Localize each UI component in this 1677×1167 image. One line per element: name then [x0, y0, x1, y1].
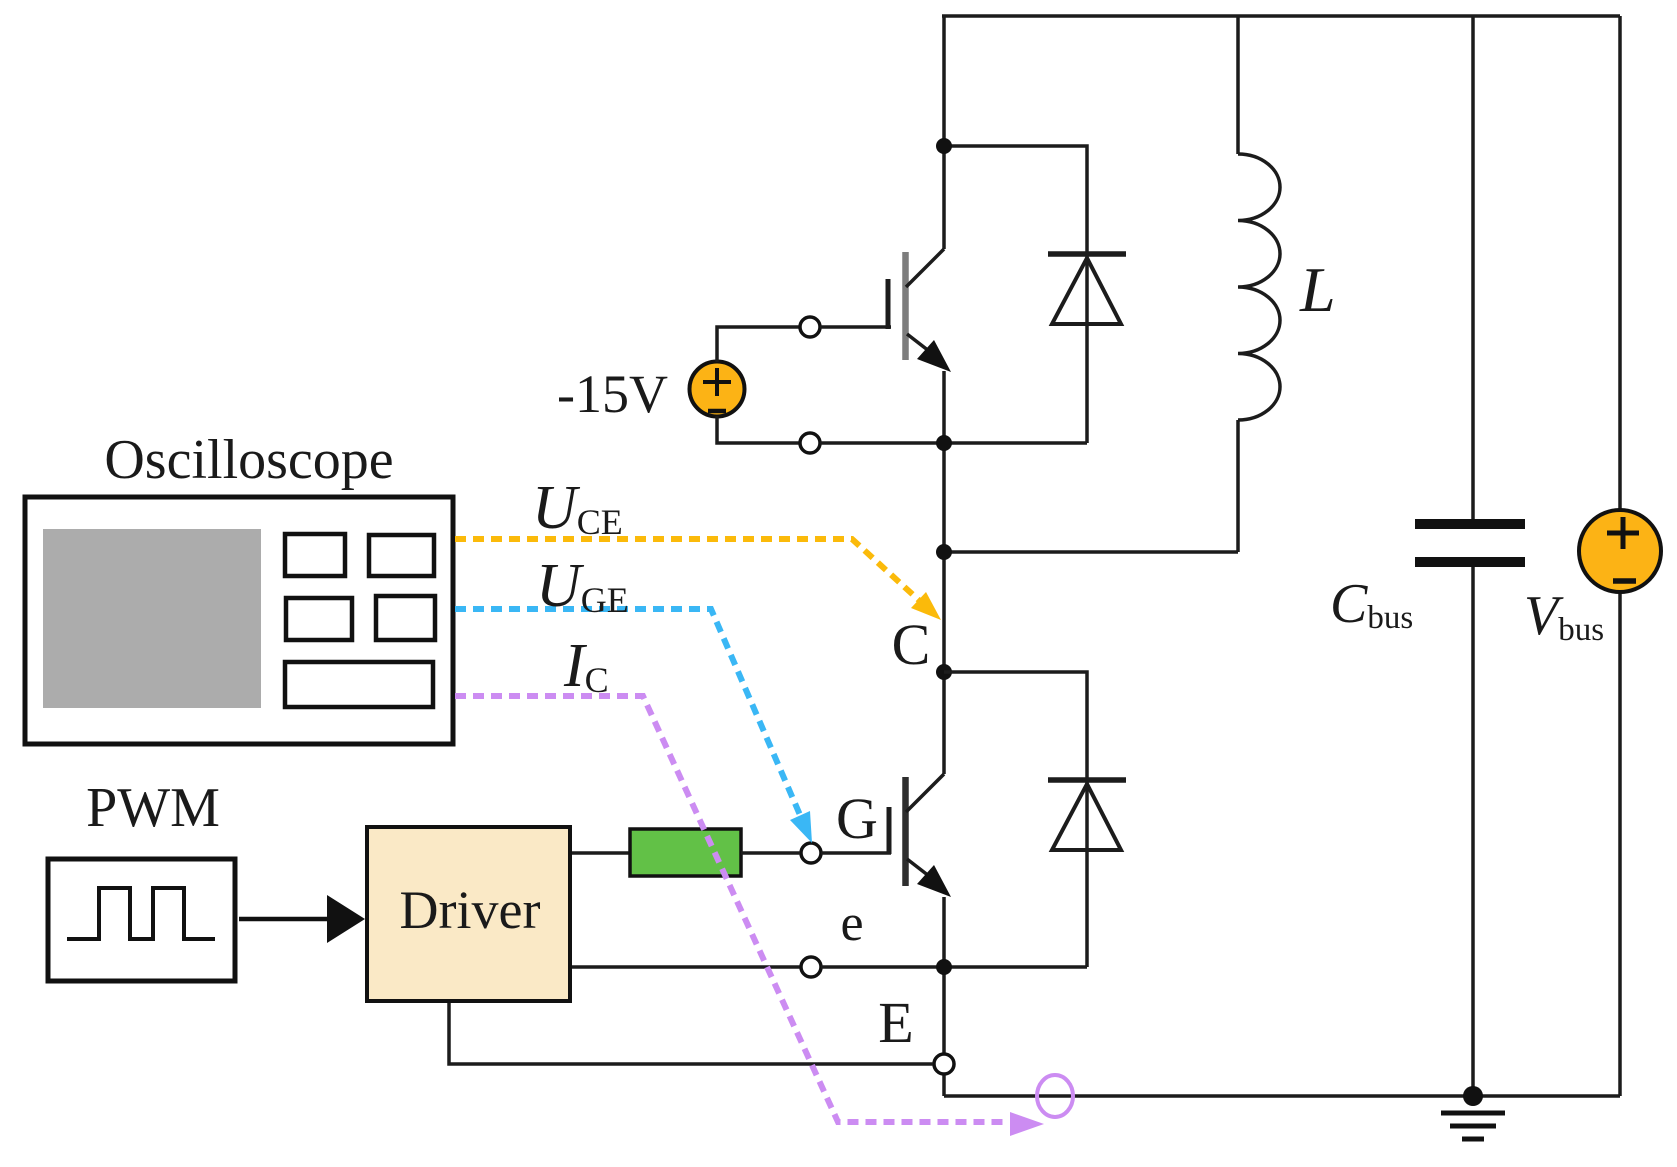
- svg-text:E: E: [878, 990, 913, 1055]
- oscilloscope button 5 (wide): [285, 662, 433, 707]
- capacitor Cbus: [1415, 16, 1525, 1096]
- PWM pulse waveform: [67, 888, 215, 939]
- terminal circle upper (Q1 gate): [800, 317, 820, 337]
- node Q1 emitter: [936, 435, 952, 451]
- oscilloscope button 4: [376, 596, 435, 640]
- wire main vertical upper (collector of Q1): [942, 16, 946, 249]
- source -15V: [690, 362, 745, 417]
- oscilloscope box: [25, 497, 453, 744]
- svg-text:PWM: PWM: [86, 777, 220, 839]
- wire e terminal to diode branch: [821, 965, 1087, 969]
- terminal circle e: [801, 957, 821, 977]
- node inductor tap: [936, 544, 952, 560]
- wire Vbus right vertical (top half): [1618, 16, 1622, 510]
- PWM source box: [48, 859, 235, 981]
- svg-text:Driver: Driver: [400, 880, 541, 940]
- diode D1 (top freewheeling): [944, 146, 1126, 443]
- IGBT Q1 (top): [888, 249, 951, 372]
- driver box U1: [367, 827, 570, 1001]
- ground: [1441, 1113, 1505, 1139]
- dashed probe line U_CE: [455, 539, 922, 603]
- oscilloscope button 3: [286, 598, 352, 640]
- wire driver upper output to gate resistor: [570, 851, 630, 855]
- terminal circle lower (Q1 emitter): [800, 433, 820, 453]
- wire driver kelvin return to E terminal: [449, 1001, 933, 1064]
- source Vbus: [1579, 510, 1661, 592]
- wire gate resistor to G terminal: [741, 851, 800, 855]
- wire E terminal to ground rail: [942, 1075, 946, 1096]
- wire lower terminal to main vertical: [820, 441, 944, 445]
- oscilloscope button 1: [285, 534, 345, 576]
- node C (collector of DUT): [936, 664, 952, 680]
- svg-text:Oscilloscope: Oscilloscope: [104, 429, 393, 491]
- terminal circle G: [801, 843, 821, 863]
- svg-text:L: L: [1299, 254, 1336, 325]
- wire main vertical middle (emitter Q1 to collector Q2): [942, 371, 946, 774]
- terminal circle E: [934, 1054, 954, 1074]
- wire Q1 emitter row to D1 anode: [944, 441, 1087, 445]
- wire inductor bottom to main vertical: [944, 550, 1238, 554]
- svg-text:e: e: [840, 895, 863, 952]
- wire driver lower output (e line): [570, 965, 800, 969]
- diode D2 (bottom freewheeling): [944, 672, 1126, 967]
- wire G terminal to Q2 gate: [821, 851, 891, 855]
- node top rail / D1: [936, 138, 952, 154]
- wire Vbus right vertical (bottom half): [1618, 592, 1622, 1096]
- node e / main vertical: [936, 959, 952, 975]
- oscilloscope screen: [43, 529, 261, 708]
- svg-text:C: C: [892, 612, 931, 677]
- inductor L: [1238, 16, 1280, 552]
- IGBT Q2 (bottom, DUT): [889, 774, 951, 897]
- wire upper terminal to Q1 gate: [820, 325, 891, 329]
- current probe ring: [1037, 1075, 1073, 1117]
- resistor Rg (gate resistor): [630, 829, 741, 876]
- svg-text:-15V: -15V: [557, 364, 668, 424]
- node junction: Cbus/ground rail: [1463, 1086, 1483, 1106]
- wire top bus rail: [942, 14, 1620, 18]
- wire -15V negative to lower terminal: [717, 416, 799, 443]
- dashed probe line U_GE: [455, 609, 800, 815]
- wire -15V positive to upper gate terminal: [717, 327, 800, 362]
- wire main vertical lower (emitter Q2 to E terminal): [942, 897, 946, 1054]
- dashed probe line I_C: [455, 696, 1005, 1122]
- svg-text:G: G: [836, 786, 878, 851]
- wire bottom ground rail: [944, 1094, 1620, 1098]
- oscilloscope button 2: [369, 535, 434, 576]
- wire PWM to Driver with arrow: [239, 917, 327, 922]
